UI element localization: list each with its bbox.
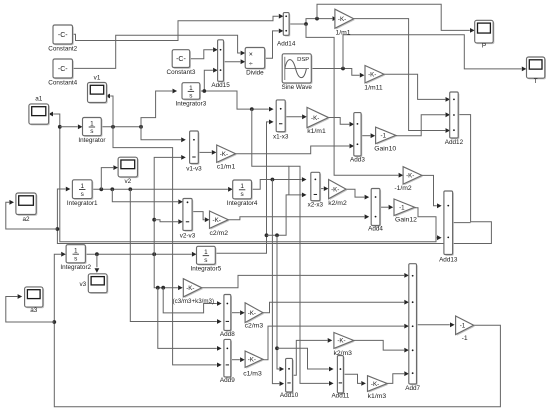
gain (c3/m3+k3/m3): [173, 279, 214, 305]
wire v1 down to Add9 minus input: [113, 127, 222, 367]
svg-text:Add13: Add13: [439, 257, 458, 264]
wire v2 down to Add8 minus input: [130, 189, 221, 324]
svg-text:-K-: -K-: [368, 71, 376, 78]
integrator block Integrator5: [191, 246, 222, 272]
wire gain -1/m2 to Add13 input 1: [422, 175, 442, 208]
wire Add7 to gain -1: [417, 322, 455, 327]
wire v2 to v2 scope: [101, 165, 118, 189]
sum block Add8: [220, 295, 235, 339]
svg-text:-1/m2: -1/m2: [394, 185, 412, 192]
wire gain 1/m11 to Add12 input 1: [384, 74, 450, 102]
svg-text:-1: -1: [462, 335, 468, 342]
svg-text:-1: -1: [381, 133, 387, 140]
svg-text:Gain12: Gain12: [395, 217, 417, 224]
svg-text:k1/m1: k1/m1: [307, 128, 326, 135]
wire Integrator output v1 node line: [101, 125, 143, 129]
wire Integrator1 output v2 to Integrator4: [92, 187, 233, 192]
integrator block Integrator: [78, 118, 105, 145]
svg-text:-K-: -K-: [311, 115, 319, 122]
svg-text:Add15: Add15: [211, 82, 230, 89]
wire x1 vertical down to bridge line: [252, 109, 289, 166]
svg-text:-K-: -K-: [186, 285, 194, 292]
DSP Sine Wave source block: [281, 54, 312, 91]
svg-text:a1: a1: [35, 96, 43, 103]
gain k2/m3: [333, 333, 355, 358]
svg-text:1/m11: 1/m11: [364, 84, 383, 91]
integrator block Integrator1: [67, 180, 98, 207]
wire Add15 to Divide divide input: [224, 59, 246, 64]
svg-text:Add12: Add12: [445, 139, 464, 146]
wire Add8 to gain c2/m3: [231, 310, 245, 315]
wire Add4 to Gain12: [380, 205, 393, 210]
svg-text:Add9: Add9: [220, 377, 235, 384]
svg-text:c2/m2: c2/m2: [210, 230, 229, 237]
svg-text:v2-v3: v2-v3: [180, 232, 196, 239]
wire gain -1 bottom feedback loop to Integrator2: [52, 252, 500, 407]
sum block x1-x3: [273, 100, 289, 141]
wire Add3 to Gain10: [361, 133, 375, 138]
wire gain k1/m3 to Add7 input 5: [387, 371, 409, 383]
svg-text:Integrator4: Integrator4: [227, 200, 258, 207]
svg-text:Integrator: Integrator: [78, 137, 105, 144]
wire gain c2/m2 to Add4 input 2: [228, 214, 369, 219]
constant block Constant4: [48, 59, 77, 86]
wire Constant2 to Add14 input 1: [73, 14, 284, 41]
svg-text:1/m1: 1/m1: [335, 29, 350, 36]
svg-text:Integrator3: Integrator3: [176, 101, 207, 108]
wire Sine Wave to gain 1/m11: [311, 67, 364, 78]
wire x1 to Add15 input 2: [204, 68, 217, 91]
sum block v2-v3: [180, 199, 196, 240]
svg-text:v2: v2: [124, 178, 131, 185]
wire summer v1-v3 to gain c1/m1: [198, 150, 216, 155]
sum block Add11: [331, 356, 349, 400]
gain 1/m11: [364, 66, 385, 92]
svg-text:v1-v3: v1-v3: [186, 166, 202, 173]
wire summer x2-x3 to gain k2/m2: [320, 186, 329, 191]
svg-text:1: 1: [189, 85, 193, 92]
svg-text:Constant3: Constant3: [166, 69, 195, 76]
wire gain c2/m3 to Add7 input 2: [263, 300, 409, 313]
scope T: [527, 57, 547, 85]
divide block Divide: [245, 48, 266, 77]
svg-text:k2/m2: k2/m2: [328, 200, 347, 207]
svg-text:Integrator5: Integrator5: [191, 266, 222, 273]
svg-text:x2-x3: x2-x3: [308, 201, 324, 208]
svg-text:T: T: [534, 78, 538, 85]
sum block Add13: [439, 191, 458, 264]
integrator block Integrator4: [227, 180, 258, 207]
gain k1/m1: [307, 107, 330, 135]
sum block Add9: [220, 339, 235, 384]
svg-text:÷: ÷: [249, 61, 253, 68]
sum block Add12: [445, 92, 464, 146]
wire node to Integrator input: [60, 124, 83, 129]
wire Gain10 to Add12 input 2: [396, 112, 450, 135]
svg-text:c1/m3: c1/m3: [243, 371, 262, 378]
svg-text:Constant4: Constant4: [48, 79, 77, 86]
gain -1: [456, 316, 475, 342]
gain c2/m3: [245, 303, 264, 330]
scope v3: [79, 274, 108, 294]
wire v1 to summer v1-v3 plus input: [141, 127, 186, 142]
wire v3 down to gain (c3/m3+k3/m3): [154, 254, 183, 290]
svg-text:-K-: -K-: [248, 310, 256, 317]
svg-text:Add3: Add3: [350, 156, 365, 163]
wire Integrator3 output x1: [200, 89, 274, 111]
gain Gain12: [394, 199, 417, 224]
wire x3 branch to Add11 plus input: [277, 348, 334, 371]
svg-text:-K-: -K-: [213, 217, 221, 224]
svg-text:Integrator2: Integrator2: [60, 264, 91, 271]
svg-text:P: P: [482, 43, 486, 50]
wire summer v2-v3 to gain c2/m2: [192, 212, 209, 223]
svg-text:s: s: [74, 255, 77, 262]
constant block Constant2: [48, 25, 77, 52]
wire Integrator5 output x3 trunk: [215, 120, 273, 254]
svg-text:c2/m3: c2/m3: [245, 323, 264, 330]
integrator block Integrator3: [176, 83, 207, 108]
wire v3 to v3 scope: [95, 254, 100, 273]
svg-text:s: s: [81, 191, 84, 198]
wire v3 vertical up to summer v1-v3 minus input: [152, 155, 186, 254]
wire Constant3 to Add15 input 1: [189, 47, 218, 59]
svg-text:Divide: Divide: [246, 69, 264, 76]
svg-text:1: 1: [90, 120, 94, 127]
sum block Add10: [280, 358, 299, 399]
svg-text:1: 1: [240, 183, 244, 190]
wire v3 branch loop to Add8 plus input: [163, 288, 221, 313]
svg-text:1: 1: [204, 249, 208, 256]
svg-text:(c3/m3+k3/m3): (c3/m3+k3/m3): [173, 298, 214, 305]
constant block Constant3: [166, 50, 195, 76]
svg-text:Add11: Add11: [331, 393, 349, 400]
svg-text:-K-: -K-: [220, 151, 228, 158]
svg-text:DSP: DSP: [297, 57, 309, 63]
wire Constant4 to Divide X input: [73, 35, 246, 68]
wire x3 branch to summer x2-x3 minus input: [267, 193, 307, 238]
svg-text:a3: a3: [30, 307, 38, 314]
svg-text:k1/m3: k1/m3: [368, 393, 387, 400]
wire x3 bridge over to Add11 minus input: [289, 166, 334, 386]
wire Add12 output feedback bus to Integrator1: [56, 115, 492, 244]
wire branch to a2 scope: [6, 200, 58, 229]
wire Integrator2 output v3 to Integrator5: [85, 252, 196, 257]
svg-text:a2: a2: [23, 216, 31, 223]
gain -1/m2: [394, 167, 423, 193]
svg-text:s: s: [240, 191, 243, 198]
wire x2 branch down to Add10 minus input: [272, 180, 284, 387]
gain c1/m3: [243, 351, 264, 378]
wire sine branch to T scope: [343, 35, 526, 72]
svg-text:-K-: -K-: [338, 16, 346, 23]
gain k2/m2: [328, 180, 347, 208]
scope v1: [88, 74, 108, 103]
wire Add11 to gain k1/m3: [343, 374, 366, 386]
wire Add10 to gain k2/m3: [293, 338, 333, 375]
svg-text:-1: -1: [399, 204, 405, 211]
svg-text:-K-: -K-: [371, 381, 379, 388]
gain c1/m1: [217, 145, 237, 171]
wire v2 to summer v2-v3 plus input: [112, 189, 183, 204]
wire gain k2/m3 to Add7 input 4: [354, 340, 409, 352]
sum block Add7: [405, 264, 420, 393]
svg-text:s: s: [204, 257, 207, 264]
svg-text:Sine Wave: Sine Wave: [281, 84, 312, 91]
svg-text:×: ×: [249, 52, 253, 59]
svg-text:Add8: Add8: [220, 331, 235, 338]
scope v2: [118, 157, 139, 185]
svg-text:-1: -1: [460, 322, 466, 329]
wire gain (c3/m3+k3/m3) to Add7 input 1: [202, 273, 409, 288]
svg-text:Add14: Add14: [277, 40, 296, 47]
svg-text:s: s: [90, 128, 93, 135]
svg-text:Integrator1: Integrator1: [67, 200, 98, 207]
wire gain c1/m3 to Add7 input 3: [263, 324, 409, 360]
integrator block Integrator2: [60, 245, 91, 271]
svg-text:-K-: -K-: [248, 356, 256, 363]
wire gain c1/m1 to Add3 input 2: [236, 144, 355, 154]
wire Add9 to gain c1/m3: [231, 357, 245, 362]
wire summer x1-x3 to gain k1/m1: [285, 114, 307, 119]
gain c2/m2: [210, 211, 230, 237]
svg-text:Constant2: Constant2: [48, 45, 77, 52]
scope a1: [29, 96, 50, 126]
scope a2: [16, 193, 38, 223]
wire Add14 to gain 1/m1: [289, 16, 337, 26]
sum block Add3: [350, 113, 365, 164]
wire Divide to Add14 input 2: [265, 29, 284, 59]
wire v3 branch to Add9 plus input: [158, 288, 222, 351]
gain k1/m3: [368, 376, 389, 400]
svg-text:-K-: -K-: [331, 186, 339, 193]
svg-text:c1/m1: c1/m1: [217, 164, 236, 171]
wire gain k1/m1 to Add3 input 1: [329, 118, 355, 127]
svg-text:v1: v1: [94, 74, 101, 81]
svg-text:x1-x3: x1-x3: [273, 134, 289, 141]
wire Gain12 staircase to Add13 input 2: [415, 208, 442, 242]
wire v1 node to v1 scope: [105, 94, 113, 127]
sum block Add4: [368, 189, 383, 233]
svg-text:-C-: -C-: [58, 32, 68, 39]
svg-text:-C-: -C-: [58, 66, 68, 73]
svg-text:v3: v3: [79, 281, 86, 288]
gain 1/m1: [335, 9, 355, 36]
sum block v1-v3: [186, 131, 202, 173]
wire Integrator4 output x2 to summer x2-x3 plus input: [252, 177, 307, 189]
wire Add14 branch down to gain -1/m2: [306, 24, 403, 178]
wire Add13 output to node: [453, 222, 471, 224]
svg-text:Add4: Add4: [368, 226, 383, 233]
svg-text:s: s: [189, 93, 192, 100]
wire x3 down branch to Add10 plus input: [275, 235, 284, 371]
svg-text:Add10: Add10: [280, 392, 299, 399]
svg-text:-K-: -K-: [337, 338, 345, 345]
svg-text:Add7: Add7: [405, 385, 420, 392]
wire a1 feedback bus: [48, 112, 436, 242]
wire node to P scope: [317, 4, 475, 33]
wire branch to a3 scope: [6, 294, 55, 322]
svg-text:-C-: -C-: [176, 56, 186, 63]
gain Gain10: [374, 127, 397, 152]
scope a3: [25, 287, 44, 314]
wire gain k2/m2 to Add4 input 1: [346, 189, 369, 199]
sum block x2-x3: [308, 172, 324, 208]
scope P: [475, 20, 495, 49]
svg-text:1: 1: [74, 248, 78, 255]
svg-text:Gain10: Gain10: [374, 145, 396, 152]
svg-text:-K-: -K-: [406, 173, 414, 180]
sum block Add14: [277, 13, 296, 48]
wire v1 staircase to Integrator3: [141, 89, 177, 127]
sum block Add15: [211, 40, 230, 89]
wire gain 1/m1 to Add12 input 3: [354, 19, 450, 133]
wire v3 to summer v2-v3 minus input: [154, 219, 183, 224]
svg-text:1: 1: [80, 183, 84, 190]
